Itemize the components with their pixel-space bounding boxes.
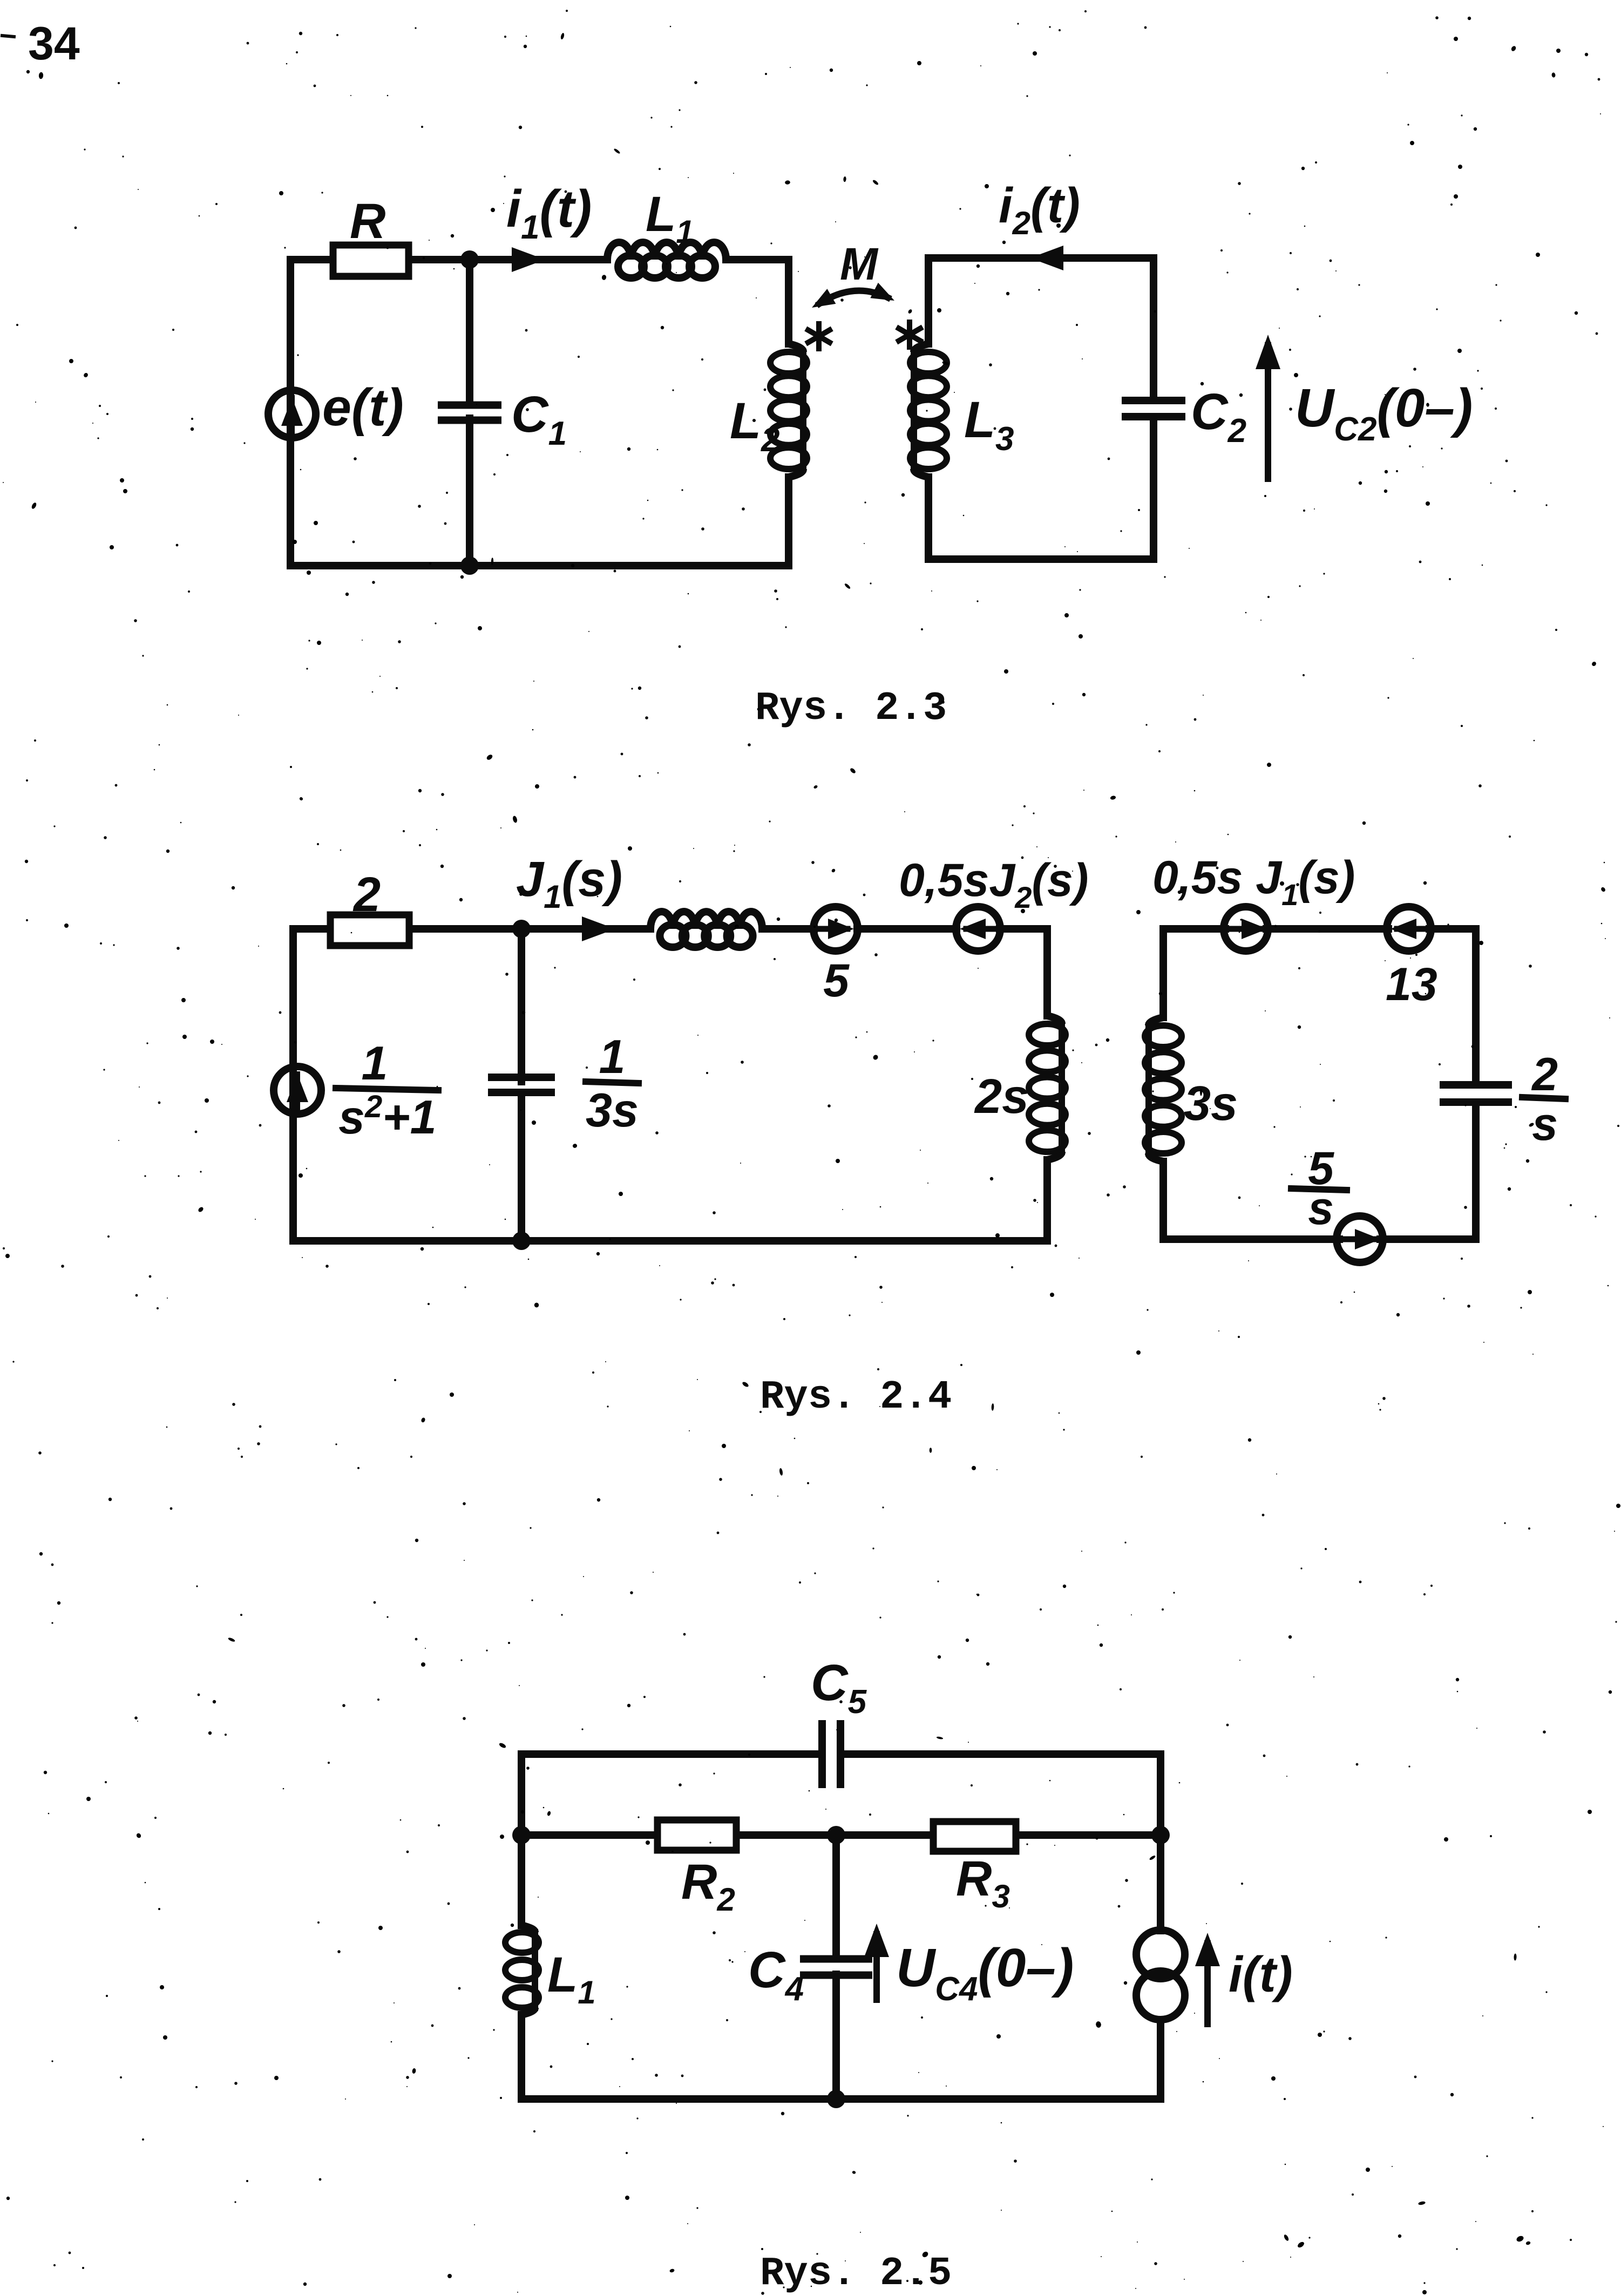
svg-text:M: M — [840, 239, 879, 289]
svg-text:2: 2 — [1531, 1049, 1558, 1101]
svg-text:s: s — [1308, 1183, 1334, 1234]
svg-text:Rys. 2.4: Rys. 2.4 — [760, 1375, 952, 1420]
svg-text:i(t): i(t) — [1229, 1946, 1293, 2002]
svg-text:3s: 3s — [586, 1083, 639, 1137]
svg-text:s2+1: s2+1 — [338, 1089, 437, 1144]
svg-text:1: 1 — [599, 1030, 626, 1083]
svg-text:1: 1 — [362, 1036, 388, 1090]
svg-text:Rys. 2.5: Rys. 2.5 — [760, 2251, 952, 2296]
svg-text:3s: 3s — [1184, 1077, 1238, 1131]
svg-text:UC4(0–): UC4(0–) — [896, 1938, 1074, 2008]
svg-text:R: R — [350, 194, 385, 249]
svg-text:0,5sJ2(s): 0,5sJ2(s) — [899, 854, 1088, 914]
svg-text:5: 5 — [823, 955, 850, 1007]
svg-text:Rys. 2.3: Rys. 2.3 — [755, 686, 947, 731]
svg-text:13: 13 — [1386, 959, 1437, 1010]
svg-text:2: 2 — [352, 868, 381, 922]
svg-text:e(t): e(t) — [322, 378, 404, 437]
svg-text:34: 34 — [28, 18, 80, 70]
svg-text:i1(t): i1(t) — [506, 179, 592, 246]
svg-text:0,5s J1(s): 0,5s J1(s) — [1152, 852, 1355, 912]
svg-text:2s: 2s — [974, 1070, 1029, 1124]
svg-text:UC2(0–): UC2(0–) — [1295, 378, 1473, 448]
svg-text:J1(s): J1(s) — [516, 852, 622, 915]
svg-text:s: s — [1532, 1098, 1558, 1150]
